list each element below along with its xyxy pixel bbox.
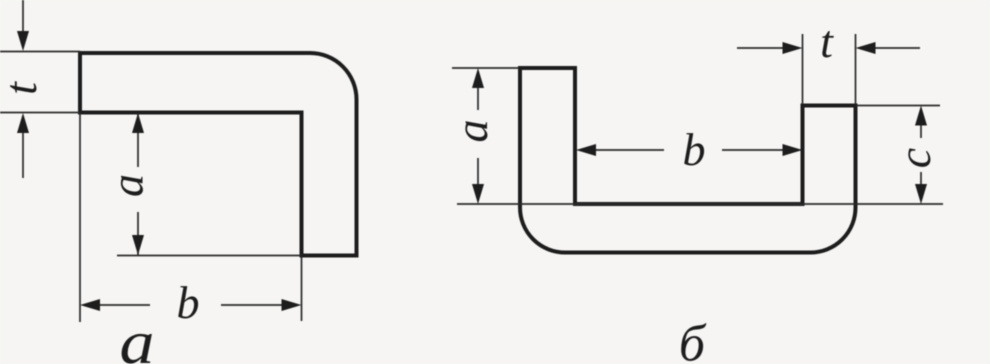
angle profile outline (figure a) — [80, 53, 357, 256]
dimension line b2 left segment — [594, 149, 664, 151]
extension line c top — [856, 105, 941, 107]
extension line b left — [79, 113, 81, 322]
arrowhead t2 right — [783, 42, 803, 54]
dimension line t2 right — [874, 47, 921, 49]
dimension line b2 right segment — [722, 149, 785, 151]
svg-text:c: c — [889, 148, 940, 168]
dimension line a2 upper segment — [477, 86, 479, 110]
arrowhead t down — [17, 31, 29, 51]
extension line a2 top — [452, 67, 519, 69]
dimension line a2 lower segment — [477, 158, 479, 186]
svg-text:б: б — [679, 316, 707, 364]
svg-text:t: t — [0, 81, 46, 95]
channel profile outline (figure b) — [520, 68, 856, 253]
arrowhead t2 left — [856, 42, 876, 54]
arrowhead a up — [132, 113, 144, 133]
svg-text:b: b — [683, 124, 706, 175]
dimension line t2 left — [737, 47, 785, 49]
arrowhead a2 up — [472, 68, 484, 88]
dimension line c upper segment — [920, 124, 922, 139]
arrowhead a2 down — [472, 184, 484, 204]
extension line b right — [301, 257, 303, 321]
svg-text:а: а — [120, 309, 155, 364]
arrowhead b2 right — [783, 144, 803, 156]
svg-text:b: b — [177, 277, 200, 328]
dimension line t lower — [22, 131, 24, 178]
dimension line b right segment — [221, 304, 284, 306]
extension line t2 left — [802, 34, 804, 104]
dimension line a lower segment — [137, 212, 139, 255]
extension line t bottom — [0, 112, 80, 114]
arrowhead t up — [17, 113, 29, 133]
extension line a bottom — [117, 255, 302, 257]
svg-text:a: a — [102, 174, 153, 197]
arrowhead c up — [915, 106, 927, 126]
extension line t2 right — [855, 34, 857, 104]
dimension line t upper — [22, 0, 24, 33]
baseline extension line — [457, 203, 943, 205]
extension line t top — [0, 51, 80, 53]
arrowhead b right — [282, 299, 302, 311]
arrowhead b2 left — [576, 144, 596, 156]
dimension line c lower segment — [920, 172, 922, 186]
svg-text:a: a — [446, 120, 497, 143]
arrowhead b left — [80, 299, 100, 311]
dimension line b left segment — [98, 304, 150, 306]
arrowhead a down — [132, 235, 144, 255]
arrowhead c down — [915, 184, 927, 204]
dimension line a upper segment — [137, 113, 139, 167]
svg-text:t: t — [820, 16, 834, 67]
